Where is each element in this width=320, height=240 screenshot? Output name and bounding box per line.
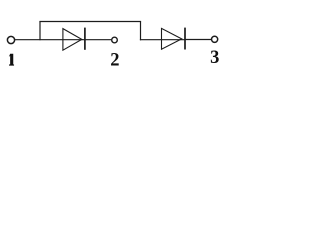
pin label 1 (9, 54, 14, 66)
svg-text:2: 2 (110, 50, 119, 70)
wire D1 cathode to terminal 2 (84, 39, 111, 41)
wire junction A riser up (39, 22, 41, 41)
diode D2 (162, 28, 186, 50)
wire terminal 1 to diode D1 anode (15, 39, 84, 41)
diode D1 (63, 28, 85, 51)
wire D2 cathode to terminal 3 (184, 39, 211, 41)
terminal node 3 (212, 36, 218, 42)
svg-text:3: 3 (210, 48, 219, 68)
wire top bypass horizontal (39, 21, 141, 23)
terminal node 2 (112, 37, 118, 43)
wire riser down to D2 branch (140, 22, 142, 41)
terminal node 1 (7, 36, 14, 43)
wire riser to diode D2 anode (140, 39, 184, 41)
